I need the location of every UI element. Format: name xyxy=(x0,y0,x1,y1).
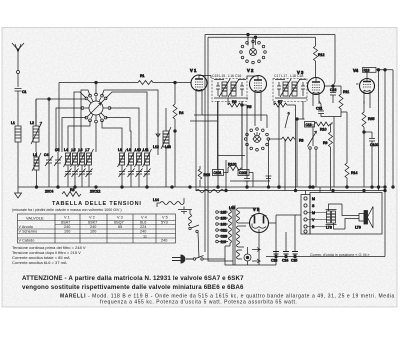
trimmer C4 xyxy=(44,152,53,187)
svg-text:6SQ7: 6SQ7 xyxy=(114,221,124,225)
wire mid links xyxy=(190,101,297,192)
svg-text:20C12: 20C12 xyxy=(90,190,100,194)
coil L1 xyxy=(11,121,21,187)
svg-text:125: 125 xyxy=(221,211,227,215)
resistor R100 xyxy=(213,156,254,188)
capacitor C30 xyxy=(178,207,192,215)
resistor R11 xyxy=(334,86,349,117)
svg-text:11: 11 xyxy=(143,234,147,238)
svg-text:ATTENZIONE - A partire dal: ATTENZIONE - A partire dalla matricola N… xyxy=(22,275,244,282)
svg-text:6SA7: 6SA7 xyxy=(61,221,70,225)
svg-text:V 2: V 2 xyxy=(89,216,95,220)
svg-text:150: 150 xyxy=(221,217,227,221)
svg-text:C1: C1 xyxy=(22,90,27,94)
svg-text:C23: C23 xyxy=(221,235,227,239)
svg-text:L6: L6 xyxy=(79,148,83,152)
svg-text:LT9: LT9 xyxy=(355,226,361,230)
heater wire xyxy=(196,98,226,193)
capacitor C100 xyxy=(363,131,379,187)
svg-text:V 2: V 2 xyxy=(247,68,254,73)
svg-text:160: 160 xyxy=(221,223,227,227)
svg-text:6L6: 6L6 xyxy=(140,221,146,225)
wire switch loops xyxy=(56,90,158,155)
capacitor C22 xyxy=(325,85,341,103)
capacitor 20C4 label xyxy=(45,190,53,194)
coil L15 choke xyxy=(189,210,192,227)
svg-text:R65: R65 xyxy=(368,117,374,121)
wire bus 2 xyxy=(196,186,385,192)
capacitor C1 xyxy=(15,89,27,127)
resistor R12 xyxy=(314,37,325,78)
svg-text:C100: C100 xyxy=(370,143,378,147)
svg-text:110: 110 xyxy=(221,240,227,244)
svg-text:V 4: V 4 xyxy=(141,216,147,220)
heater winding wavy xyxy=(153,198,184,207)
svg-text:R16: R16 xyxy=(204,173,210,177)
svg-text:C102: C102 xyxy=(239,171,247,175)
svg-text:C15 L15 . L16 C16: C15 L15 . L16 C16 xyxy=(212,74,241,78)
secondary xyxy=(237,208,240,223)
svg-text:R18: R18 xyxy=(364,69,370,73)
svg-text:M: M xyxy=(312,211,315,215)
speaker LT9 xyxy=(342,204,373,230)
svg-text:V Catodo: V Catodo xyxy=(19,239,35,243)
capacitor C24 xyxy=(282,252,289,263)
resistor R5 xyxy=(247,99,261,126)
coil L8 xyxy=(118,148,127,187)
resistor R15 xyxy=(362,101,374,187)
tube socket top view U7 xyxy=(244,128,269,151)
capacitor 20C12 label xyxy=(90,190,100,194)
antenna xyxy=(12,43,24,87)
svg-text:V Anodo: V Anodo xyxy=(19,225,33,229)
coil L10 xyxy=(135,148,144,187)
svg-text:C5: C5 xyxy=(55,148,60,152)
svg-text:C4: C4 xyxy=(44,153,49,157)
tube socket top view U6 xyxy=(240,37,267,64)
chassis node arrows xyxy=(276,214,301,216)
svg-text:L14: L14 xyxy=(153,198,159,202)
tube V4 xyxy=(353,68,393,102)
trimmer C5 xyxy=(54,148,62,187)
IF transformer T2 xyxy=(273,74,307,187)
wire main grid bus xyxy=(59,81,138,152)
resistor R8 xyxy=(269,137,304,143)
svg-text:65: 65 xyxy=(118,225,122,229)
svg-text:R10: R10 xyxy=(320,128,326,132)
svg-text:LT8: LT8 xyxy=(326,226,332,230)
svg-text:Comm. d'onda in posizione « O: Comm. d'onda in posizione « O. M.» xyxy=(310,253,370,257)
coil L6 xyxy=(78,148,87,187)
bottom caption text xyxy=(22,275,395,306)
svg-text:C23: C23 xyxy=(271,259,277,263)
svg-text:V 5: V 5 xyxy=(162,216,168,220)
table TABELLA DELLE TENSIONI xyxy=(12,201,176,265)
switch S3 xyxy=(193,256,225,261)
resistor R6 xyxy=(228,98,296,128)
wire B+ rail xyxy=(377,70,394,257)
svg-text:20C4: 20C4 xyxy=(45,190,53,194)
svg-text:TABELLA DELLE TENSIONI: TABELLA DELLE TENSIONI xyxy=(52,201,142,207)
svg-text:L10: L10 xyxy=(135,148,141,152)
resistor R3 xyxy=(62,188,81,197)
svg-text:R4: R4 xyxy=(179,111,184,115)
svg-text:C101: C101 xyxy=(214,171,222,175)
speaker housing xyxy=(310,193,382,235)
svg-text:V 1: V 1 xyxy=(64,216,70,220)
svg-text:C25: C25 xyxy=(291,259,297,263)
coil L5 xyxy=(71,148,80,187)
transformer L19 xyxy=(216,205,250,265)
svg-text:Corrente anodica 6L6: Corrente anodica 6L6 = 37 mA xyxy=(12,260,67,265)
wire filter line xyxy=(225,215,295,265)
resistor R1 xyxy=(138,74,191,85)
svg-text:240: 240 xyxy=(161,239,167,243)
svg-text:R1: R1 xyxy=(140,74,145,78)
svg-text:100: 100 xyxy=(90,230,96,234)
ground bus xyxy=(18,186,385,189)
resistor R16 xyxy=(198,166,210,187)
svg-text:V 3: V 3 xyxy=(117,216,123,220)
resistor R4 xyxy=(173,83,184,133)
svg-text:V Schermo: V Schermo xyxy=(19,230,38,234)
svg-text:R3: R3 xyxy=(70,188,75,192)
svg-text:V4: V4 xyxy=(353,68,359,73)
tube V5 xyxy=(246,207,276,265)
svg-text:(misurate fra i piedini delle: (misurate fra i piedini delle valvole e … xyxy=(12,208,122,212)
svg-text:224: 224 xyxy=(140,225,146,229)
svg-text:R8: R8 xyxy=(299,139,304,143)
svg-text:R9: R9 xyxy=(323,141,328,145)
potentiometer volume control xyxy=(308,124,318,187)
svg-text:6SK7: 6SK7 xyxy=(88,221,97,225)
core xyxy=(233,205,235,265)
wire output bus xyxy=(252,248,385,264)
capacitor C21 xyxy=(316,101,334,187)
resistor R14 xyxy=(341,112,357,187)
svg-text:R12: R12 xyxy=(318,53,324,57)
svg-text:V 3: V 3 xyxy=(297,70,304,75)
svg-text:L9: L9 xyxy=(127,148,131,152)
wire interstage xyxy=(202,98,370,188)
svg-text:L11: L11 xyxy=(143,148,149,152)
svg-text:R14: R14 xyxy=(351,171,357,175)
svg-text:240: 240 xyxy=(64,225,70,229)
ground xyxy=(15,187,22,198)
svg-text:240: 240 xyxy=(90,225,96,229)
resistor R9 xyxy=(323,132,333,191)
svg-text:R5: R5 xyxy=(247,105,252,109)
capacitor C18 xyxy=(297,119,315,187)
svg-text:C18: C18 xyxy=(306,123,312,127)
wire top bus xyxy=(205,33,335,261)
coil L4 xyxy=(64,148,73,187)
svg-text:240: 240 xyxy=(140,230,146,234)
output transformer LT8 xyxy=(307,204,345,230)
svg-text:100: 100 xyxy=(64,230,70,234)
coil L3 xyxy=(32,152,41,187)
svg-text:V 1: V 1 xyxy=(190,68,197,73)
power plug xyxy=(172,255,193,263)
IF transformer T1 xyxy=(212,74,248,187)
tuning capacitor C13 xyxy=(153,108,175,187)
svg-text:C24: C24 xyxy=(282,259,288,263)
resistor R10 xyxy=(315,122,333,132)
svg-text:R11: R11 xyxy=(343,90,349,94)
tube V2 xyxy=(247,68,267,99)
svg-text:L8: L8 xyxy=(118,148,122,152)
svg-text:L7: L7 xyxy=(86,148,90,152)
svg-text:L1: L1 xyxy=(11,121,15,125)
svg-text:L4: L4 xyxy=(64,148,68,152)
band switch S1 xyxy=(81,93,111,123)
coil L11 xyxy=(143,148,152,187)
coil L9 xyxy=(127,148,136,187)
svg-text:5Y3: 5Y3 xyxy=(161,221,168,225)
coil L7 xyxy=(85,148,94,187)
tube V1 xyxy=(174,68,211,98)
pilot lamp xyxy=(244,247,251,265)
taps xyxy=(216,211,219,214)
svg-text:L5: L5 xyxy=(72,148,76,152)
capacitor C25 xyxy=(291,252,298,263)
capacitor C23 xyxy=(271,252,279,263)
tube V3 xyxy=(297,70,325,101)
svg-text:C21: C21 xyxy=(221,229,227,233)
terminal strip xyxy=(301,187,320,234)
svg-text:L2: L2 xyxy=(30,121,34,125)
wire node A xyxy=(36,98,85,152)
primary winding xyxy=(229,210,232,243)
switch S2 xyxy=(189,225,199,258)
coil L2 variable xyxy=(30,99,42,152)
svg-text:M: M xyxy=(312,197,315,201)
svg-text:vengono sostituite rispettiv: vengono sostituite rispettivamente dalle… xyxy=(22,284,244,291)
svg-text:C21: C21 xyxy=(316,107,322,111)
svg-text:VALVOLE: VALVOLE xyxy=(26,216,44,221)
svg-text:frequenza a 455 kc. Potenz: frequenza a 455 kc. Potenza d'uscita 5 w… xyxy=(100,300,297,306)
